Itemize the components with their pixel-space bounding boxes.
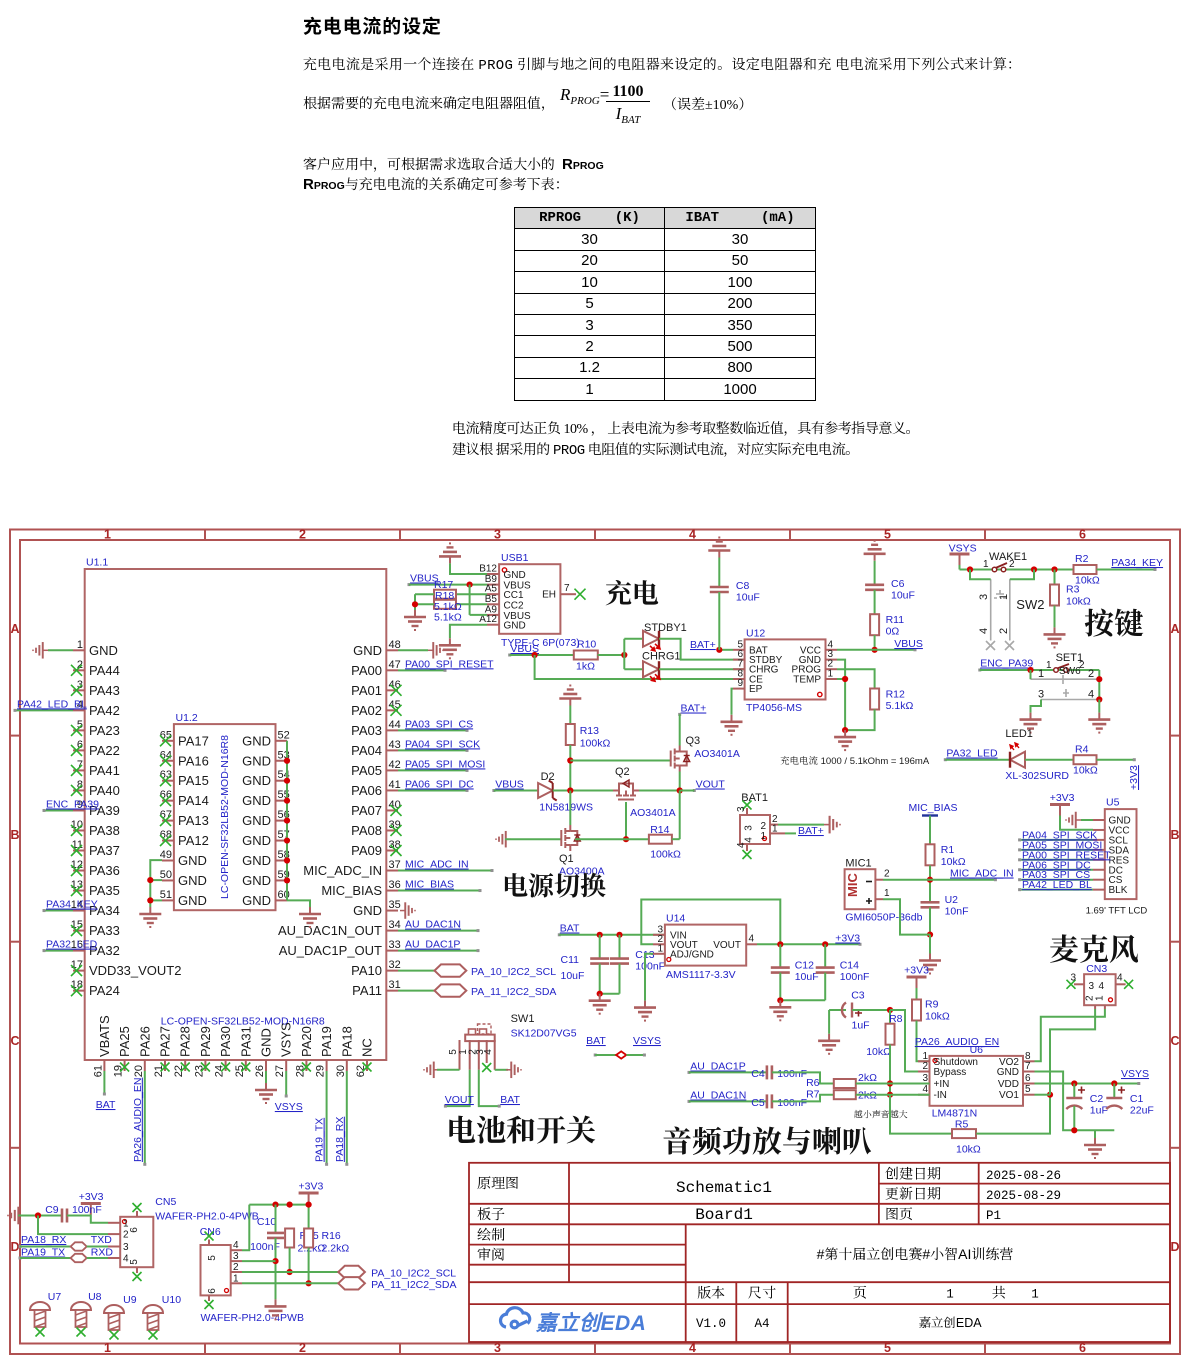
ground BAT1 <box>824 816 840 834</box>
svg-text:WAFER-PH2.0-4PWB: WAFER-PH2.0-4PWB <box>201 1312 304 1324</box>
svg-text:CN5: CN5 <box>155 1196 176 1208</box>
svg-text:5: 5 <box>207 1255 218 1261</box>
document: charging-current section title <box>303 12 442 39</box>
net label MIC_ADC_IN <box>398 870 492 872</box>
svg-text:47: 47 <box>389 659 401 671</box>
svg-text:32: 32 <box>389 959 401 971</box>
ground SW1 pin5 <box>424 1062 439 1079</box>
wire SW1 pin1 to VOUT <box>445 1070 469 1106</box>
U12 pin 7 CHRG <box>733 668 745 670</box>
svg-text:D2: D2 <box>541 771 555 783</box>
svg-text:1: 1 <box>104 1341 111 1355</box>
svg-text:PA10: PA10 <box>351 963 382 978</box>
U6 pin 3 +IN <box>918 1083 930 1085</box>
USB1 pin B9 VBUS <box>487 584 499 586</box>
svg-text:AU_DAC1N_OUT: AU_DAC1N_OUT <box>278 923 382 938</box>
svg-text:C14: C14 <box>840 960 859 972</box>
wire VO2 to CN3 <box>1035 1009 1105 1061</box>
svg-text:2: 2 <box>233 1262 239 1273</box>
svg-text:PA42_LED_BL: PA42_LED_BL <box>1022 879 1092 891</box>
wire caps to ground <box>600 993 620 995</box>
svg-text:GND: GND <box>242 873 271 888</box>
svg-text:A4: A4 <box>754 1317 769 1331</box>
wire U12 GND pin3 <box>837 660 845 731</box>
wire cap ground rail <box>1074 1129 1114 1131</box>
wire R2 to PA34_KEY <box>1097 569 1155 571</box>
svg-text:GND: GND <box>242 753 271 768</box>
svg-text:C1: C1 <box>1130 1093 1144 1105</box>
svg-text:6: 6 <box>1079 1341 1086 1355</box>
resistor R7 2k <box>834 1090 856 1099</box>
U1.2 pin 52 GND <box>276 740 288 742</box>
capacitor C11 10uF <box>599 935 601 959</box>
svg-text:TEMP: TEMP <box>793 675 821 686</box>
wire CN6 pin1 / port PA_11_I2C2_SDA <box>242 1282 338 1284</box>
svg-text:PA23: PA23 <box>89 723 120 738</box>
svg-text:PA41: PA41 <box>89 763 120 778</box>
svg-text:100nF: 100nF <box>777 1068 807 1080</box>
net label PA19_TX <box>326 1071 328 1164</box>
svg-text:10kΩ: 10kΩ <box>866 1046 891 1058</box>
svg-text:PA08: PA08 <box>351 823 382 838</box>
USB1 pin B12 GND <box>487 573 499 575</box>
SW1 pin 3 <box>486 1040 488 1063</box>
U1.1 pin 38 PA09 <box>386 850 398 852</box>
svg-text:PA36: PA36 <box>89 863 120 878</box>
U1.2 pin 60 GND <box>276 899 288 901</box>
resistor R16 2.2k <box>304 1229 313 1248</box>
svg-text:PA_11_I2C2_SDA: PA_11_I2C2_SDA <box>471 986 556 998</box>
svg-text:R12: R12 <box>886 689 905 701</box>
svg-text:GND: GND <box>242 853 271 868</box>
resistor R17 5.1k <box>456 593 487 595</box>
svg-text:PA22: PA22 <box>89 743 120 758</box>
svg-text:7: 7 <box>1025 1061 1031 1072</box>
svg-text:PA03: PA03 <box>351 723 382 738</box>
svg-text:4: 4 <box>483 1049 494 1055</box>
U1.1 pin 13 PA35 <box>73 890 85 892</box>
svg-text:3: 3 <box>736 806 747 812</box>
svg-text:+3V3: +3V3 <box>1050 792 1075 804</box>
svg-text:52: 52 <box>278 729 290 741</box>
resistor R14 100k <box>649 835 672 844</box>
net label PA42_LED_BL <box>1020 889 1093 891</box>
svg-text:SW2: SW2 <box>1016 597 1044 612</box>
svg-text:PA02: PA02 <box>351 703 382 718</box>
CN6 pin 4 <box>231 1249 242 1251</box>
svg-text:GND: GND <box>242 773 271 788</box>
ground audio caps <box>1084 1138 1106 1158</box>
wire 3V3 output rail <box>757 943 860 945</box>
resistor R12 5.1k <box>870 689 879 710</box>
net label PA03_SPI_CS <box>398 729 467 731</box>
svg-text:10uF: 10uF <box>561 970 585 982</box>
wire pin1 GND <box>48 649 73 651</box>
svg-text:R3: R3 <box>1066 584 1080 596</box>
resistor R8 10k <box>889 1010 891 1024</box>
U1.2 pin 51 GND <box>162 899 174 901</box>
svg-text:Bypass: Bypass <box>934 1067 967 1078</box>
wire CC-pullup bus <box>469 585 471 615</box>
svg-text:GND: GND <box>178 893 207 908</box>
svg-text:P1: P1 <box>986 1209 1001 1223</box>
net label PA00_SPI_RESET <box>1020 859 1093 861</box>
svg-text:PA18_RX: PA18_RX <box>334 1117 346 1162</box>
svg-text:U8: U8 <box>88 1291 102 1303</box>
svg-text:0Ω: 0Ω <box>886 626 900 638</box>
svg-text:BAT: BAT <box>560 923 580 935</box>
U1.1 pin 11 PA37 <box>73 850 85 852</box>
svg-text:5.1kΩ: 5.1kΩ <box>886 700 914 712</box>
SET1 gray body <box>1031 675 1100 700</box>
U1.2 pin 50 GND <box>162 879 174 881</box>
svg-text:PA04_SPI_SCK: PA04_SPI_SCK <box>405 738 480 750</box>
wire U12 TEMP pin1 <box>837 678 845 680</box>
svg-text:NC: NC <box>360 1038 375 1057</box>
svg-text:VOUT: VOUT <box>445 1094 475 1106</box>
svg-text:PA19_TX: PA19_TX <box>314 1118 326 1162</box>
wire SW1 pin2 to BAT <box>479 1070 499 1106</box>
svg-text:1: 1 <box>1046 660 1052 671</box>
svg-text:26: 26 <box>254 1065 266 1077</box>
svg-text:5.1kΩ: 5.1kΩ <box>434 612 462 624</box>
U1.2 pin 59 GND <box>276 879 288 881</box>
svg-text:R10: R10 <box>577 639 596 651</box>
svg-text:PA34_KEY: PA34_KEY <box>1111 557 1163 569</box>
wire BAT1 pin2 to ground <box>778 824 824 826</box>
U1.1 pin 30 PA18 <box>346 1060 348 1071</box>
capacitor C8 10uF <box>708 538 730 558</box>
capacitor C13 100nF <box>619 935 621 959</box>
svg-text:B: B <box>1170 828 1179 842</box>
wire gnd to CN5 pin2 <box>38 1216 108 1235</box>
wire PROG to R12 <box>837 669 875 688</box>
svg-text:更新日期: 更新日期 <box>885 1184 941 1204</box>
wire ADJ/GND to ground <box>645 954 653 1001</box>
svg-text:PA34_KEY: PA34_KEY <box>46 899 98 911</box>
wire VBUS to R10 <box>510 654 574 656</box>
svg-text:1uF: 1uF <box>1090 1105 1108 1117</box>
svg-text:BAT: BAT <box>500 1094 520 1106</box>
ground SET1 left <box>1020 713 1042 733</box>
U1.1 pin 1 GND <box>73 649 85 651</box>
U1.1 pin 46 PA01 <box>386 689 398 691</box>
ground C10 <box>265 1299 287 1319</box>
svg-text:MIC_BIAS: MIC_BIAS <box>321 883 382 898</box>
U5 pin SCL <box>1093 839 1105 841</box>
ground above USB (B12) <box>439 543 461 563</box>
svg-text:3: 3 <box>1089 981 1095 992</box>
svg-text:2025-08-29: 2025-08-29 <box>986 1189 1061 1203</box>
net label BAT (VBATS pin) <box>103 1071 105 1094</box>
svg-text:C12: C12 <box>795 960 814 972</box>
ground at U1.1 pin 35 <box>400 902 415 919</box>
svg-text:C5: C5 <box>751 1097 765 1109</box>
svg-text:1: 1 <box>772 824 778 835</box>
svg-text:100kΩ: 100kΩ <box>580 738 611 750</box>
resistor R9 10k <box>912 1000 921 1021</box>
CN5 pin 2 <box>108 1233 120 1235</box>
U1.1 pin 15 PA33 <box>73 930 85 932</box>
U6 pin 8 VO2 <box>1023 1060 1035 1062</box>
svg-text:PA09: PA09 <box>351 843 382 858</box>
wire VSYS rail <box>960 569 1075 571</box>
svg-text:PA28: PA28 <box>178 1026 193 1057</box>
svg-text:尺寸: 尺寸 <box>748 1283 776 1303</box>
U1.1 pin 5 PA23 <box>73 729 85 731</box>
U1.1 pin 27 VSYS <box>285 1060 287 1071</box>
ground SET1 right <box>1088 713 1110 733</box>
svg-text:PA13: PA13 <box>178 813 209 828</box>
svg-text:4: 4 <box>922 1084 928 1095</box>
document: note below table <box>452 418 919 438</box>
resistor R10 1k <box>574 651 598 660</box>
svg-text:35: 35 <box>389 899 401 911</box>
U1.2 pin 63 PA15 <box>162 780 174 782</box>
U1.1 pin 48 GND <box>386 649 398 651</box>
U12 pin 9 EP <box>733 688 745 690</box>
U1.2 pin 57 GND <box>276 840 288 842</box>
svg-text:MIC_ADC_IN: MIC_ADC_IN <box>303 863 382 878</box>
U12 pin 4 VCC <box>826 649 838 651</box>
svg-text:5: 5 <box>884 1341 891 1355</box>
ground at U1.1 pin 26 <box>265 1071 267 1083</box>
U12 pin 8 CE <box>733 678 745 680</box>
svg-text:100nF: 100nF <box>635 961 665 973</box>
svg-text:29: 29 <box>315 1065 327 1077</box>
svg-text:100nF: 100nF <box>840 971 870 983</box>
U5 pin CS <box>1093 879 1105 881</box>
svg-text:100nF: 100nF <box>777 1097 807 1109</box>
svg-text:1: 1 <box>657 943 663 954</box>
U1.1 pin 32 PA10 <box>386 970 398 972</box>
ground U1.2 left <box>139 907 161 927</box>
svg-text:4: 4 <box>749 934 755 945</box>
svg-text:GND: GND <box>242 833 271 848</box>
svg-text:24: 24 <box>214 1065 226 1077</box>
U1.1 pin 31 PA11 <box>386 990 398 992</box>
svg-text:4: 4 <box>1117 973 1123 984</box>
svg-text:10nF: 10nF <box>945 906 969 918</box>
net label PA04_SPI_SCK <box>398 749 467 751</box>
wire Q1/R14 row <box>575 838 649 840</box>
resistor R1 10k <box>926 844 935 865</box>
ground (LCD GND pin) <box>1066 812 1081 829</box>
svg-text:1: 1 <box>77 639 83 651</box>
svg-text:AO3401A: AO3401A <box>630 807 676 819</box>
SW1 pin 1 <box>469 1040 471 1070</box>
U1.2 pin 58 GND <box>276 860 288 862</box>
svg-text:C2: C2 <box>1090 1093 1104 1105</box>
svg-text:GND: GND <box>178 873 207 888</box>
switch SW2 (unplaced, gray) <box>986 579 1014 650</box>
svg-text:1: 1 <box>983 559 989 570</box>
U12 pin 3 GND <box>826 659 838 661</box>
resistor R4 10k <box>1074 755 1097 764</box>
svg-text:C9: C9 <box>45 1204 59 1216</box>
U1.1 pin 39 PA08 <box>386 829 398 831</box>
svg-text:3: 3 <box>233 1251 239 1262</box>
svg-text:EP: EP <box>749 684 763 695</box>
svg-text:10kΩ: 10kΩ <box>941 856 966 868</box>
svg-text:C: C <box>10 1034 19 1048</box>
svg-text:R5: R5 <box>955 1119 969 1131</box>
svg-text:3: 3 <box>494 528 501 542</box>
U1.1 pin 8 PA40 <box>73 789 85 791</box>
svg-text:ADJ/GND: ADJ/GND <box>670 949 714 960</box>
svg-text:23: 23 <box>193 1065 205 1077</box>
svg-text:MIC_BIAS: MIC_BIAS <box>909 802 958 814</box>
svg-text:PA37: PA37 <box>89 843 120 858</box>
svg-text:ENC_PA39: ENC_PA39 <box>46 798 99 810</box>
wire CHRG1 to U12 pin 7 <box>659 668 745 670</box>
svg-text:20: 20 <box>133 1065 145 1077</box>
svg-text:7: 7 <box>564 583 570 594</box>
svg-text:10uF: 10uF <box>891 590 915 602</box>
svg-text:PA29: PA29 <box>198 1026 213 1057</box>
wire VDD to VSYS <box>1035 1083 1139 1085</box>
ground mic <box>919 954 941 974</box>
U12 pin 6 STDBY <box>733 659 745 661</box>
U1.1 pin 7 PA41 <box>73 769 85 771</box>
svg-text:51: 51 <box>160 889 172 901</box>
ground (C9 left) <box>8 1207 24 1225</box>
svg-text:1: 1 <box>998 594 1010 600</box>
U1.1 pin 22 PA28 <box>184 1060 186 1071</box>
net label ENC_PA39 <box>44 809 73 811</box>
svg-text:D: D <box>1170 1240 1179 1254</box>
svg-text:LED1: LED1 <box>1005 728 1033 740</box>
svg-text:U6: U6 <box>970 1044 984 1056</box>
svg-text:Q2: Q2 <box>615 766 630 778</box>
svg-text:AU_DAC1P: AU_DAC1P <box>690 1061 745 1073</box>
svg-text:1: 1 <box>884 888 890 899</box>
svg-text:STDBY1: STDBY1 <box>644 622 687 634</box>
ground at Q1 gate <box>496 831 511 848</box>
svg-text:4: 4 <box>689 528 696 542</box>
svg-text:BAT+: BAT+ <box>681 703 707 715</box>
svg-text:PA31: PA31 <box>238 1026 253 1057</box>
U14 pin 1 ADJ/GND <box>653 953 665 955</box>
svg-text:充电电流 1000 / 5.1kOhm = 196mA: 充电电流 1000 / 5.1kOhm = 196mA <box>780 755 930 767</box>
wires into SW2 <box>970 570 991 580</box>
svg-text:绘制: 绘制 <box>477 1225 505 1245</box>
SW1 pin 2 <box>478 1040 480 1070</box>
title block <box>469 1163 1170 1342</box>
wire R10 to LEDs <box>598 654 625 656</box>
svg-text:3: 3 <box>1070 973 1076 984</box>
svg-text:GND: GND <box>242 733 271 748</box>
svg-text:PA07: PA07 <box>351 803 382 818</box>
svg-text:28: 28 <box>294 1065 306 1077</box>
svg-text:VSYS: VSYS <box>633 1035 661 1047</box>
svg-text:4: 4 <box>1098 981 1104 992</box>
svg-text:22: 22 <box>173 1065 185 1077</box>
svg-text:42: 42 <box>389 759 401 771</box>
U1.2 pin 54 GND <box>276 780 288 782</box>
svg-text:VSYS: VSYS <box>275 1101 303 1113</box>
ground at U1.1 pin 48 <box>398 649 428 651</box>
capacitor C1 22uF <box>1113 1084 1115 1099</box>
svg-text:48: 48 <box>389 639 401 651</box>
svg-text:PA06: PA06 <box>351 783 382 798</box>
svg-text:VSYS: VSYS <box>279 1022 294 1057</box>
svg-text:2.2kΩ: 2.2kΩ <box>322 1243 350 1255</box>
svg-text:CHRG1: CHRG1 <box>642 651 681 663</box>
JLC EDA logo <box>501 1308 530 1328</box>
svg-text:U7: U7 <box>48 1291 62 1303</box>
svg-text:2: 2 <box>884 869 890 880</box>
U5 pin SDA <box>1093 849 1105 851</box>
svg-text:C8: C8 <box>736 580 750 592</box>
svg-text:36: 36 <box>389 879 401 891</box>
svg-text:PA30: PA30 <box>218 1026 233 1057</box>
svg-text:2: 2 <box>299 528 306 542</box>
svg-text:37: 37 <box>389 859 401 871</box>
ground R3 <box>1044 627 1066 647</box>
svg-text:板子: 板子 <box>477 1204 505 1224</box>
svg-text:GND: GND <box>504 621 526 632</box>
wire 3V3 rail CN6 <box>249 1204 308 1206</box>
wires U1.2 GND pins 49-51 to ground <box>150 860 162 907</box>
svg-text:LC-OPEN-SF32LB52-MOD-N16R8: LC-OPEN-SF32LB52-MOD-N16R8 <box>161 1016 325 1028</box>
svg-text:PA_11_I2C2_SDA: PA_11_I2C2_SDA <box>371 1279 456 1291</box>
svg-text:EH: EH <box>542 590 556 601</box>
wire VO1 to feedback <box>1035 1094 1051 1096</box>
U1.1 pin 21 PA27 <box>164 1060 166 1071</box>
svg-text:PA19: PA19 <box>319 1026 334 1057</box>
svg-text:MIC: MIC <box>845 873 860 897</box>
U14 pin 4 VOUT <box>746 943 757 945</box>
svg-text:PA26: PA26 <box>137 1026 152 1057</box>
svg-text:PA44: PA44 <box>89 663 120 678</box>
svg-text:BAT: BAT <box>586 1035 606 1047</box>
svg-text:+3V3: +3V3 <box>904 965 929 977</box>
svg-text:按键: 按键 <box>1084 599 1144 643</box>
U5 pin DC <box>1093 869 1105 871</box>
svg-text:C11: C11 <box>561 954 580 966</box>
svg-text:2: 2 <box>1009 559 1015 570</box>
svg-text:6: 6 <box>1025 1073 1031 1084</box>
svg-text:嘉立创EDA: 嘉立创EDA <box>918 1313 982 1331</box>
svg-text:嘉立创EDA: 嘉立创EDA <box>535 1311 646 1335</box>
U1.2 pin 56 GND <box>276 820 288 822</box>
net label MIC_BIAS <box>398 890 480 892</box>
U1.1 pin 43 PA04 <box>386 749 398 751</box>
svg-text:MIC1: MIC1 <box>845 858 871 870</box>
svg-text:PA12: PA12 <box>178 833 209 848</box>
net label PA06_SPI_DC <box>398 789 467 791</box>
svg-text:PA05_SPI_MOSI: PA05_SPI_MOSI <box>405 758 485 770</box>
IC U12 TP4056-MS <box>745 639 826 699</box>
svg-text:U10: U10 <box>162 1294 181 1306</box>
svg-text:PA_10_I2C2_SCL: PA_10_I2C2_SCL <box>471 966 556 978</box>
U1.1 pin 29 PA19 <box>326 1060 328 1071</box>
svg-text:GND: GND <box>242 893 271 908</box>
svg-text:R14: R14 <box>650 824 669 836</box>
U12 pin 5 BAT <box>733 649 745 651</box>
resistor R18 5.1k <box>456 603 487 605</box>
svg-text:C6: C6 <box>891 578 905 590</box>
svg-text:充电: 充电 <box>605 572 659 611</box>
U1.1 pin 33 AU_DAC1P_OUT <box>386 950 398 952</box>
svg-text:PA16: PA16 <box>178 753 209 768</box>
svg-text:Schematic1: Schematic1 <box>676 1179 772 1197</box>
svg-text:创建日期: 创建日期 <box>885 1164 941 1184</box>
svg-text:R9: R9 <box>925 999 939 1011</box>
svg-text:PA18_RX: PA18_RX <box>21 1234 66 1246</box>
svg-text:GND: GND <box>504 570 526 581</box>
